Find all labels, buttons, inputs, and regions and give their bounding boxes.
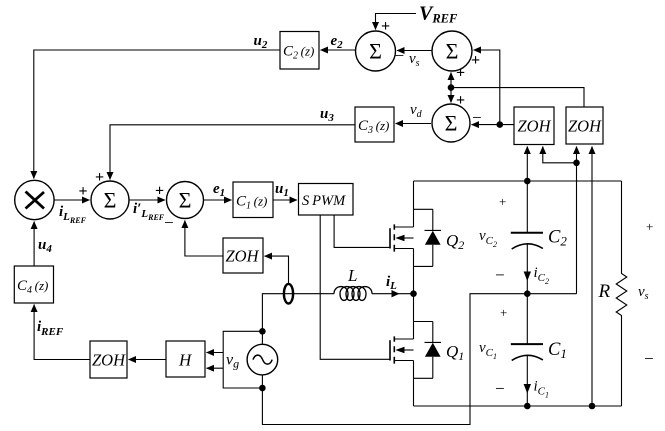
svg-text:+: + [499, 194, 506, 209]
node junction dot vg top [259, 328, 266, 335]
wire u3 from C3 output to summer D top [110, 125, 355, 180]
block H [166, 341, 205, 377]
transistor Q2 [390, 181, 441, 294]
node junction dot switch midpoint [410, 290, 417, 297]
node u1 label [275, 181, 289, 199]
node vC2 label [479, 228, 497, 249]
svg-text:+: + [155, 183, 164, 200]
node e1 label [213, 181, 225, 199]
node Q2 label [446, 231, 464, 252]
node u3 label [320, 106, 334, 124]
node junction dot vC1 net [448, 84, 455, 91]
wire SPWM to Q2 gate [334, 215, 390, 247]
wire Q2 gate bar and channel [389, 228, 391, 248]
svg-text:+: + [500, 305, 507, 320]
block C4(z) [14, 266, 53, 303]
node plus sign summer D left [79, 183, 88, 200]
wire bracket to H lower arrow [207, 367, 224, 369]
svg-text:−: − [164, 213, 174, 232]
node C1 label [548, 340, 567, 361]
node plus sign C1 [500, 305, 507, 320]
node vC1 label [479, 340, 497, 361]
node e2 label [331, 33, 344, 51]
node junction dot mid rail at capacitors [524, 290, 531, 297]
svg-text:−: − [644, 349, 654, 368]
node plus sign at summer A top [381, 18, 390, 35]
node C2 label [548, 228, 567, 249]
svg-text:H: H [178, 351, 193, 370]
block SPWM [299, 184, 354, 216]
wire Q2 body arrow [401, 237, 414, 239]
svg-text:Q2: Q2 [446, 231, 464, 252]
wire Q1 source [394, 361, 413, 407]
svg-text:S PWM: S PWM [302, 193, 346, 209]
wire summer A to C2(z) [321, 49, 356, 51]
op-amp summer A (Sigma) [356, 31, 396, 71]
node VREF label [419, 3, 458, 26]
svg-text:u2: u2 [254, 33, 268, 51]
svg-text:e2: e2 [331, 33, 344, 51]
node junction dot vg bottom [259, 385, 266, 392]
svg-text:Q1: Q1 [446, 342, 464, 363]
wire ZOH1 sense input from mid rail via jog [543, 147, 577, 163]
block C2(z) [280, 32, 319, 70]
wire u2 feedback C2 output to multiplier top [34, 50, 280, 179]
svg-text:C1 (z): C1 (z) [236, 194, 267, 212]
wire C1 bottom lead with iC1 arrow [526, 355, 528, 406]
wire bottom rail Q1 source to R bottom [414, 405, 622, 407]
wire Q2 drain [413, 181, 415, 227]
node junction dot bottom rail at C1 [524, 403, 531, 410]
multiplier X [15, 180, 54, 219]
block ZOH current loop [223, 238, 263, 273]
svg-text:R: R [598, 281, 611, 302]
node plus sign C2 [499, 194, 506, 209]
svg-text:L: L [347, 266, 357, 285]
wire branch up into summer B bottom [450, 73, 452, 88]
wire C1(z) to SPWM [273, 199, 297, 201]
capacitor C2 [511, 181, 543, 294]
wire VREF lead into summer A [376, 14, 417, 30]
svg-text:+: + [646, 219, 653, 234]
node plus sign summer B right [471, 52, 480, 69]
wire branch from vC2 net up to summer B right [474, 50, 500, 125]
svg-text:−: − [472, 108, 482, 127]
wire bracket to H upper arrow [207, 352, 224, 354]
wire ZOH1 sense input from top rail [526, 147, 528, 182]
svg-text:−: − [495, 379, 505, 398]
svg-text:u4: u4 [38, 237, 52, 255]
node u2 label [254, 33, 268, 51]
svg-text:+: + [79, 183, 88, 200]
node junction dot sense jog [573, 160, 580, 167]
wire ZOH1 output to summer C right and summer B right [472, 124, 515, 126]
node iL label [386, 274, 397, 292]
wire Q1 gate bar and channel [389, 340, 391, 360]
op-amp summer D (Sigma) [91, 181, 129, 219]
svg-text:Σ: Σ [179, 187, 192, 212]
svg-text:C3 (z): C3 (z) [358, 118, 389, 136]
wire vg sense bracket [223, 331, 262, 388]
wire ZOH bottom to C4(z) iREF [34, 305, 90, 360]
wire top rail Q2 drain to R top [414, 180, 622, 182]
block C3(z) [355, 107, 394, 142]
svg-text:ZOH: ZOH [92, 351, 126, 370]
transistor Q1 [390, 294, 441, 406]
node iC2 label [534, 265, 550, 286]
voltage source vg [247, 344, 278, 375]
op-amp summer C (Sigma) [432, 104, 470, 142]
wire Q1 drain [413, 294, 415, 339]
svg-text:i′LREF: i′LREF [133, 201, 165, 222]
wire Q1 body arrow [401, 349, 414, 351]
node R label [598, 281, 611, 302]
svg-text:u1: u1 [275, 181, 289, 199]
svg-text:Σ: Σ [445, 110, 458, 135]
node junction dot bottom rail at ZOH2 sense [589, 403, 596, 410]
wire SPWM to Q1 gate [320, 215, 390, 359]
svg-text:+: + [456, 65, 465, 82]
node vs right label [638, 284, 649, 302]
svg-text:vg: vg [226, 352, 239, 371]
node vg label [226, 352, 239, 371]
svg-text:vC2: vC2 [479, 228, 497, 249]
svg-text:iLREF: iLREF [59, 204, 87, 225]
svg-text:VREF: VREF [419, 3, 458, 26]
resistor R [616, 181, 627, 406]
current sensor ellipse on inductor wire [284, 284, 293, 304]
wire multiplier to summer D [54, 199, 89, 201]
node iREF label [37, 319, 64, 338]
node plus sign summer C top [456, 92, 465, 109]
wire mid rail capacitors midpoint to vg return [262, 294, 576, 425]
svg-text:ZOH: ZOH [568, 117, 602, 136]
node plus sign vs [646, 219, 653, 234]
wire vg top terminal through sensor and inductor lead [262, 294, 334, 345]
svg-text:C4 (z): C4 (z) [17, 278, 48, 296]
svg-text:Σ: Σ [104, 187, 117, 212]
wire summer D to summer E [129, 199, 165, 201]
node plus sign summer D top [95, 169, 104, 186]
wire current sensor to ZOH input [265, 256, 289, 284]
node iC1 label [534, 379, 550, 400]
svg-text:vd: vd [410, 102, 423, 120]
node plus sign summer B bottom [456, 65, 465, 82]
node minus sign C2 [495, 266, 505, 285]
wire summer E to C1(z) [204, 199, 232, 201]
op-amp summer B (Sigma) [432, 31, 472, 71]
svg-text:iC2: iC2 [534, 265, 550, 286]
wire C2 bottom lead with iC2 arrow [526, 244, 528, 294]
svg-text:+: + [471, 52, 480, 69]
svg-text:vs: vs [638, 284, 649, 302]
capacitor C1 [511, 294, 543, 406]
wire ZOH current output to summer E bottom [185, 221, 223, 257]
wire inductor to switch midpoint with iL arrow [372, 293, 414, 295]
block C1(z) [233, 182, 273, 218]
wire ZOH2 sense input from bottom rail [591, 147, 593, 407]
node minus vs label [395, 46, 420, 69]
node minus sign vs [644, 349, 654, 368]
node minus sign summer E bottom [164, 213, 174, 232]
node u4 label [38, 237, 52, 255]
wire H to ZOH bottom [129, 359, 167, 361]
svg-text:C2: C2 [548, 228, 567, 249]
node plus sign summer E left [155, 183, 164, 200]
op-amp summer E (Sigma) [167, 182, 204, 219]
node vd label [410, 102, 423, 120]
svg-text:iC1: iC1 [534, 379, 550, 400]
svg-text:Σ: Σ [369, 38, 382, 63]
wire C4(z) to multiplier bottom u4 [33, 222, 35, 267]
block ZOH bottom [90, 341, 127, 378]
wire C2 top lead [526, 181, 528, 233]
wire branch down into summer C top [450, 88, 452, 103]
svg-text:C1: C1 [548, 340, 567, 361]
svg-text:vC1: vC1 [479, 340, 497, 361]
svg-text:vs: vs [409, 51, 420, 69]
node i'LREF label [133, 201, 165, 222]
svg-text:ZOH: ZOH [226, 247, 260, 266]
capacitor C1 plates [511, 343, 543, 345]
wire C1 top lead [526, 294, 528, 344]
svg-text:−: − [495, 266, 505, 285]
wire summer B to summer A [397, 50, 432, 52]
node junction dot top rail at C2 [524, 178, 531, 185]
wire Q2 source [394, 249, 413, 294]
wire ZOH2 output to summers B and C [451, 88, 584, 107]
block ZOH2 [566, 107, 603, 144]
node Q1 label [446, 342, 464, 363]
node iLREF label [59, 204, 87, 225]
svg-text:ZOH: ZOH [518, 117, 552, 136]
svg-text:u3: u3 [320, 106, 334, 124]
svg-text:C2 (z): C2 (z) [283, 44, 314, 62]
svg-text:Σ: Σ [446, 38, 459, 63]
capacitor C2 plates [511, 232, 543, 234]
wire ZOH2 sense input from mid rail [576, 147, 578, 294]
node L label [347, 266, 357, 285]
block ZOH1 [514, 107, 554, 145]
svg-text:iREF: iREF [37, 319, 64, 338]
svg-text:iL: iL [386, 274, 397, 292]
diode D1 antiparallel [414, 322, 442, 379]
diode D2 antiparallel [414, 209, 442, 266]
wire summer C to C3(z) [396, 123, 432, 125]
node minus sign summer C right [472, 108, 482, 127]
node junction dot vC2 net [497, 121, 504, 128]
inductor L [334, 287, 372, 301]
svg-text:−: − [395, 46, 405, 65]
node minus sign C1 [495, 379, 505, 398]
svg-text:e1: e1 [213, 181, 225, 199]
